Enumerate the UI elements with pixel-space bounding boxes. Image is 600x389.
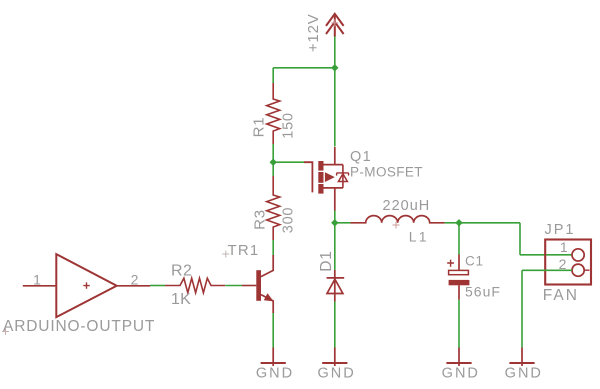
junction at +12V rail <box>331 64 338 71</box>
junction at gate node <box>270 159 277 166</box>
svg-text:R3: R3 <box>252 209 269 230</box>
power symbol +12V <box>326 14 344 37</box>
ground GND under D1 <box>322 348 347 367</box>
ground GND under TR1 <box>261 348 286 367</box>
svg-text:R2: R2 <box>171 263 192 280</box>
svg-text:1K: 1K <box>171 291 191 308</box>
wire op-amp out to R2 <box>150 285 165 287</box>
svg-text:2: 2 <box>131 272 139 288</box>
resistor R3 <box>267 176 280 240</box>
transistor TR1 <box>242 255 274 313</box>
origin cross of +12V symbol <box>331 19 338 26</box>
svg-text:220uH: 220uH <box>383 198 431 214</box>
wire TR1 emitter to GND <box>272 313 274 348</box>
wire D1 to GND <box>334 302 336 348</box>
origin cross of L1 <box>393 222 400 229</box>
svg-text:P-MOSFET: P-MOSFET <box>350 165 423 180</box>
connector JP1 <box>545 240 591 285</box>
svg-text:150: 150 <box>280 112 296 139</box>
resistor R2 <box>165 278 225 293</box>
wire R3 to TR1 collector <box>272 240 274 255</box>
resistor R1 <box>267 83 280 144</box>
capacitor C1 <box>447 254 469 299</box>
svg-text:GND: GND <box>256 366 294 382</box>
junction at drain node <box>331 219 338 226</box>
svg-text:GND: GND <box>317 366 355 382</box>
ground GND under C1 <box>446 348 471 367</box>
wire Q1 drain to junction <box>334 211 336 223</box>
svg-text:D1: D1 <box>318 250 335 271</box>
svg-text:GND: GND <box>505 366 543 382</box>
wire R1 to junction <box>272 144 274 162</box>
svg-text:1: 1 <box>560 239 568 255</box>
svg-text:TR1: TR1 <box>228 242 260 259</box>
origin cross of op-amp <box>2 328 9 335</box>
origin cross of TR1 <box>222 251 229 258</box>
wire junction to JP1 corner <box>459 222 520 224</box>
svg-text:Q1: Q1 <box>350 149 372 165</box>
transistor Q1 P-MOSFET <box>304 147 349 211</box>
wire junction to L1 <box>335 222 351 224</box>
wire JP1 pin2 <box>522 269 572 271</box>
wire L1 to junction <box>445 222 459 224</box>
svg-text:1: 1 <box>33 272 41 288</box>
svg-text:L1: L1 <box>409 229 429 245</box>
svg-text:GND: GND <box>442 366 480 382</box>
wire C1 to GND <box>458 300 460 348</box>
wire junction down to C1 <box>458 223 460 255</box>
svg-text:300: 300 <box>281 207 297 234</box>
svg-text:ARDUINO-OUTPUT: ARDUINO-OUTPUT <box>3 318 155 335</box>
diode D1 <box>327 270 345 302</box>
wire JP1 corner down <box>519 223 521 255</box>
junction at C1 node <box>455 219 462 226</box>
inductor L1 <box>351 216 445 223</box>
wire +12V rail down to Q1 source <box>334 68 336 147</box>
wire +12V down to junction <box>334 37 336 68</box>
wire R2 to TR1 base <box>225 285 242 287</box>
wire junction down to R3 <box>272 162 274 176</box>
wire top horizontal <box>273 67 335 69</box>
wire to JP1 pin1 <box>520 254 572 256</box>
wire junction to gate <box>273 161 304 163</box>
svg-text:C1: C1 <box>465 254 484 269</box>
wire down to R1 <box>272 68 274 83</box>
svg-text:R1: R1 <box>251 117 268 138</box>
svg-text:+12V: +12V <box>305 13 322 52</box>
svg-text:56uF: 56uF <box>465 284 501 300</box>
wire junction down to D1 <box>334 223 336 270</box>
ground GND under JP1 pin2 <box>509 348 534 367</box>
wire pin2 down to GND <box>521 270 523 347</box>
op-amp buffer ARDUINO-OUTPUT <box>23 254 150 317</box>
svg-text:FAN: FAN <box>543 287 579 304</box>
svg-text:JP1: JP1 <box>545 222 576 238</box>
